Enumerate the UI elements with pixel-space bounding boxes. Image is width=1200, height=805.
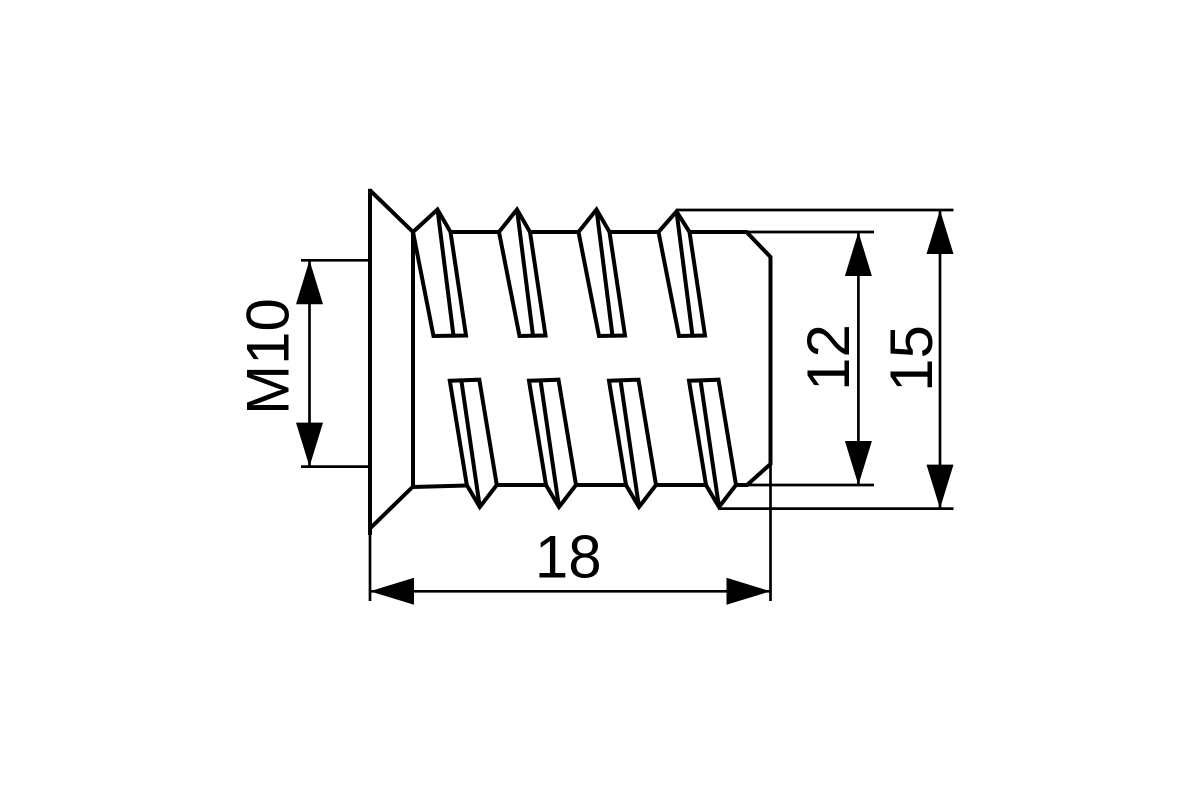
svg-text:15: 15 <box>878 325 945 392</box>
svg-text:18: 18 <box>535 523 602 590</box>
svg-text:M10: M10 <box>235 298 302 415</box>
svg-text:12: 12 <box>795 324 862 391</box>
